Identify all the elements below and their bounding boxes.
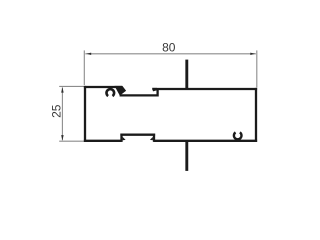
glazing fin bottom [185, 141, 188, 171]
profile recessed channel surface [120, 94, 158, 96]
dimension 25 arrow up [61, 87, 64, 92]
profile left wall [84, 86, 86, 142]
profile top-left edge [84, 86, 122, 88]
channel step riser [156, 88, 158, 97]
dimension 25 extension line bottom [59, 140, 84, 142]
dimension 80 arrow right [250, 53, 255, 55]
dimension 25 extension line top [59, 85, 84, 87]
profile right wall [255, 88, 257, 142]
screw port ring bottom (open top) [234, 132, 242, 139]
dimension 80 line [85, 53, 256, 55]
bottom notch left wall [120, 134, 122, 142]
svg-text:80: 80 [162, 40, 176, 54]
dimension 80 extension line left [83, 50, 85, 85]
dimension 25 arrow down [61, 135, 64, 140]
dimension 80 extension line right [256, 50, 258, 87]
bottom notch right wall [153, 134, 155, 142]
dimension 25 line [61, 87, 63, 140]
profile top-right edge [152, 88, 257, 90]
step lip tooth [152, 88, 157, 92]
dimension 80 arrow left [86, 53, 91, 55]
top hook barb [115, 86, 127, 96]
profile bottom edge right [154, 140, 257, 142]
glazing fin top [185, 60, 188, 89]
bottom notch top edge [120, 134, 155, 136]
bottom notch left foot [123, 137, 126, 140]
screw port ring top (open bottom) [107, 89, 115, 96]
profile bottom edge left [84, 140, 122, 142]
bottom notch right foot [150, 137, 153, 140]
svg-text:25: 25 [50, 104, 64, 118]
